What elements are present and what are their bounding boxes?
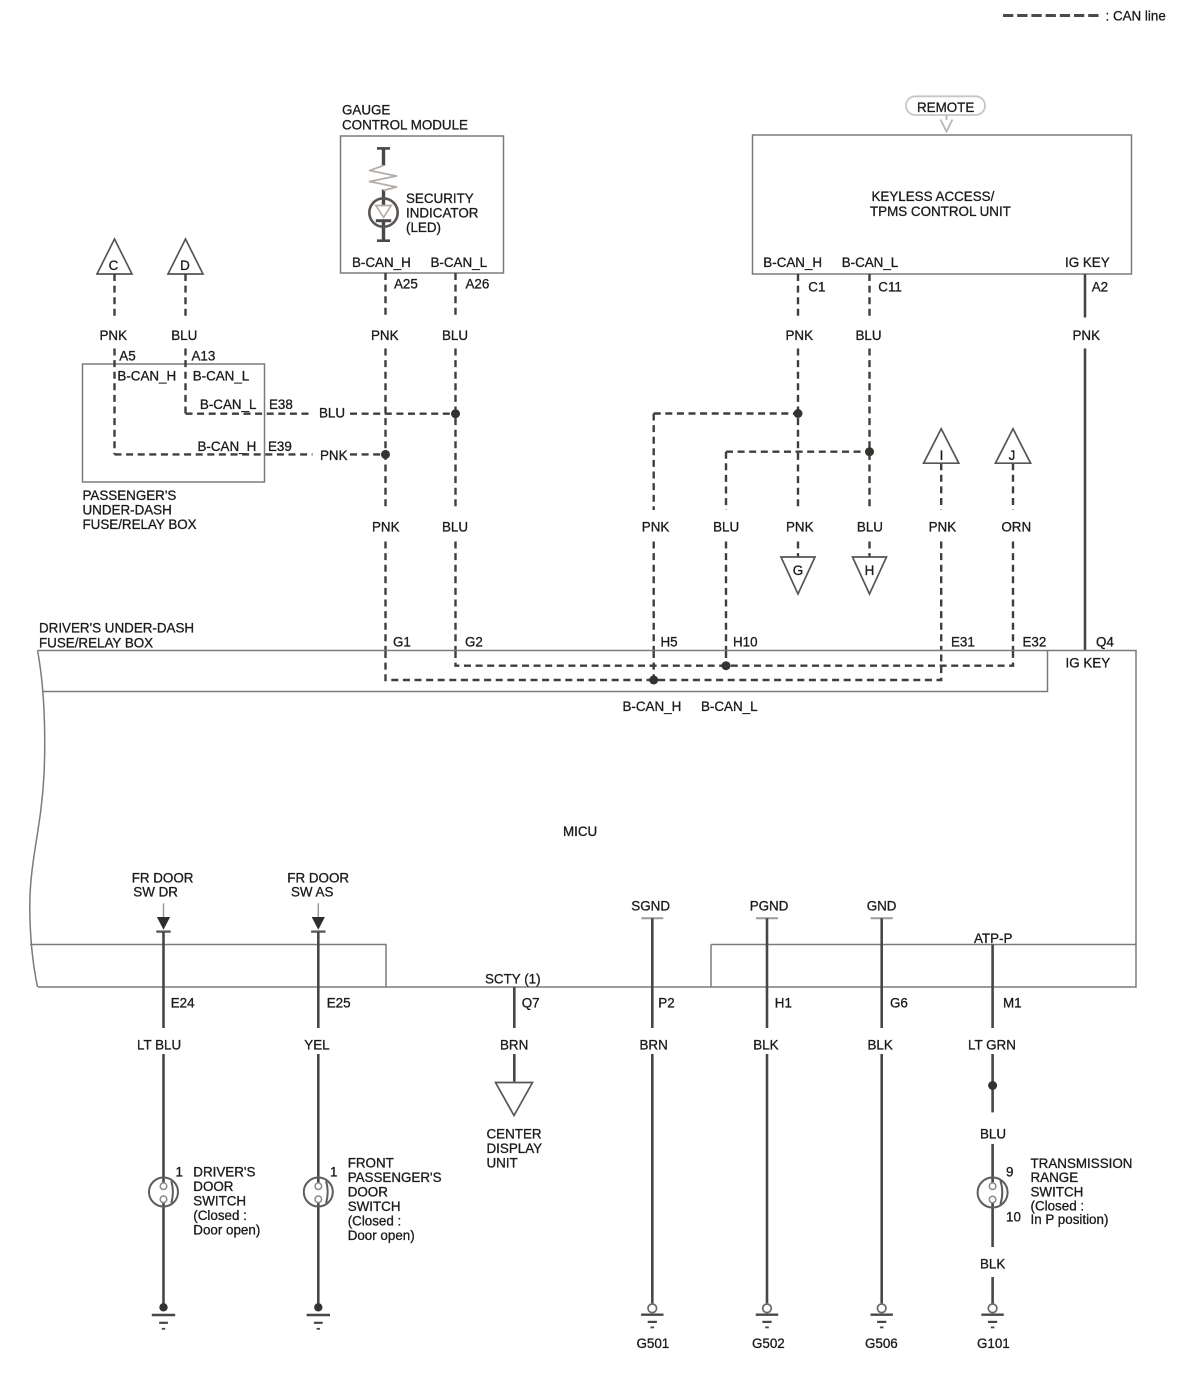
- svg-text:I: I: [940, 448, 944, 463]
- svg-text:H10: H10: [733, 635, 758, 650]
- svg-text:C: C: [109, 258, 119, 273]
- svg-text:FUSE/RELAY BOX: FUSE/RELAY BOX: [39, 636, 153, 651]
- svg-text:Door open): Door open): [348, 1228, 415, 1243]
- svg-text:Q7: Q7: [522, 996, 540, 1011]
- svg-text:REMOTE: REMOTE: [917, 100, 974, 115]
- svg-text:ATP-P: ATP-P: [974, 931, 1013, 946]
- svg-text:Q4: Q4: [1096, 635, 1114, 650]
- svg-text:CENTER: CENTER: [487, 1127, 542, 1142]
- svg-text:MICU: MICU: [563, 824, 597, 839]
- svg-text:H1: H1: [775, 996, 792, 1011]
- svg-text:BLU: BLU: [442, 328, 468, 343]
- svg-text:A13: A13: [192, 348, 216, 363]
- svg-text:G506: G506: [865, 1336, 898, 1351]
- svg-text:SECURITY: SECURITY: [406, 191, 474, 206]
- svg-text:B-CAN_H: B-CAN_H: [352, 255, 411, 270]
- svg-text:: CAN line: : CAN line: [1106, 9, 1166, 24]
- svg-text:A2: A2: [1092, 280, 1108, 295]
- svg-text:P2: P2: [658, 996, 674, 1011]
- svg-text:CONTROL MODULE: CONTROL MODULE: [342, 118, 468, 133]
- svg-text:PNK: PNK: [371, 328, 399, 343]
- svg-text:SGND: SGND: [631, 898, 670, 913]
- svg-text:PNK: PNK: [786, 328, 814, 343]
- svg-text:BRN: BRN: [640, 1038, 668, 1053]
- svg-text:10: 10: [1006, 1210, 1021, 1225]
- svg-text:TRANSMISSION: TRANSMISSION: [1031, 1156, 1133, 1171]
- svg-text:FR DOOR: FR DOOR: [287, 871, 349, 886]
- svg-text:B-CAN_H: B-CAN_H: [117, 369, 176, 384]
- svg-text:DRIVER'S: DRIVER'S: [193, 1165, 255, 1180]
- svg-text:1: 1: [176, 1165, 183, 1180]
- svg-text:PASSENGER'S: PASSENGER'S: [348, 1170, 442, 1185]
- svg-text:SW DR: SW DR: [133, 885, 178, 900]
- svg-text:A26: A26: [466, 277, 490, 292]
- svg-text:In P position): In P position): [1031, 1212, 1109, 1227]
- svg-text:B-CAN_L: B-CAN_L: [842, 255, 899, 270]
- svg-text:YEL: YEL: [304, 1038, 329, 1053]
- svg-text:B-CAN_L: B-CAN_L: [431, 255, 488, 270]
- svg-text:J: J: [1009, 448, 1016, 463]
- svg-text:A25: A25: [394, 277, 418, 292]
- svg-text:E24: E24: [171, 996, 195, 1011]
- svg-text:BLK: BLK: [980, 1257, 1005, 1272]
- svg-text:DOOR: DOOR: [193, 1179, 234, 1194]
- svg-text:FRONT: FRONT: [348, 1155, 394, 1170]
- svg-text:PNK: PNK: [100, 328, 128, 343]
- svg-text:B-CAN_H: B-CAN_H: [623, 699, 682, 714]
- svg-text:E31: E31: [951, 635, 975, 650]
- svg-text:E25: E25: [327, 996, 351, 1011]
- svg-text:RANGE: RANGE: [1031, 1170, 1079, 1185]
- svg-text:IG KEY: IG KEY: [1066, 656, 1111, 671]
- svg-text:PNK: PNK: [786, 520, 814, 535]
- svg-text:UNDER-DASH: UNDER-DASH: [83, 503, 172, 518]
- svg-text:PNK: PNK: [1073, 328, 1101, 343]
- svg-text:E38: E38: [269, 397, 293, 412]
- svg-text:B-CAN_L: B-CAN_L: [193, 369, 250, 384]
- svg-text:DISPLAY: DISPLAY: [487, 1141, 543, 1156]
- svg-text:M1: M1: [1003, 996, 1022, 1011]
- svg-text:BLU: BLU: [713, 520, 739, 535]
- svg-text:1: 1: [330, 1165, 337, 1180]
- svg-text:C1: C1: [808, 280, 825, 295]
- svg-text:9: 9: [1006, 1165, 1013, 1180]
- svg-text:G2: G2: [465, 635, 483, 650]
- svg-text:TPMS CONTROL UNIT: TPMS CONTROL UNIT: [870, 204, 1011, 219]
- svg-text:C11: C11: [878, 280, 902, 295]
- svg-text:(Closed :: (Closed :: [348, 1214, 402, 1229]
- svg-text:G1: G1: [393, 635, 411, 650]
- svg-text:PNK: PNK: [372, 520, 400, 535]
- svg-text:GND: GND: [867, 898, 897, 913]
- svg-text:G101: G101: [977, 1336, 1010, 1351]
- svg-text:BRN: BRN: [500, 1038, 528, 1053]
- svg-text:SCTY (1): SCTY (1): [485, 972, 541, 987]
- svg-text:(Closed :: (Closed :: [193, 1208, 247, 1223]
- svg-text:E32: E32: [1023, 635, 1047, 650]
- svg-text:GAUGE: GAUGE: [342, 103, 390, 118]
- svg-text:PASSENGER'S: PASSENGER'S: [83, 488, 177, 503]
- svg-text:BLU: BLU: [856, 328, 882, 343]
- svg-text:DOOR: DOOR: [348, 1185, 389, 1200]
- svg-text:BLK: BLK: [753, 1038, 778, 1053]
- svg-text:BLU: BLU: [319, 406, 345, 421]
- svg-text:G501: G501: [637, 1336, 670, 1351]
- svg-text:SWITCH: SWITCH: [193, 1194, 246, 1209]
- svg-text:B-CAN_H: B-CAN_H: [763, 255, 822, 270]
- svg-text:BLK: BLK: [868, 1038, 893, 1053]
- svg-text:INDICATOR: INDICATOR: [406, 206, 479, 221]
- svg-text:BLU: BLU: [857, 520, 883, 535]
- svg-text:SW AS: SW AS: [291, 885, 333, 900]
- svg-text:H: H: [865, 563, 875, 578]
- svg-text:SWITCH: SWITCH: [1031, 1184, 1084, 1199]
- svg-text:(LED): (LED): [406, 220, 441, 235]
- svg-text:LT GRN: LT GRN: [968, 1038, 1016, 1053]
- svg-text:B-CAN_L: B-CAN_L: [701, 699, 758, 714]
- svg-text:FUSE/RELAY BOX: FUSE/RELAY BOX: [83, 517, 197, 532]
- svg-text:LT BLU: LT BLU: [137, 1038, 181, 1053]
- svg-text:B-CAN_L: B-CAN_L: [200, 397, 257, 412]
- svg-text:PGND: PGND: [750, 898, 789, 913]
- svg-text:H5: H5: [661, 635, 678, 650]
- svg-text:E39: E39: [268, 439, 292, 454]
- svg-text:UNIT: UNIT: [487, 1156, 518, 1171]
- svg-text:BLU: BLU: [171, 328, 197, 343]
- svg-text:BLU: BLU: [980, 1127, 1006, 1142]
- svg-text:PNK: PNK: [320, 448, 348, 463]
- svg-text:PNK: PNK: [642, 520, 670, 535]
- svg-text:BLU: BLU: [442, 520, 468, 535]
- svg-text:G6: G6: [890, 996, 908, 1011]
- svg-text:ORN: ORN: [1001, 520, 1031, 535]
- svg-text:G: G: [793, 563, 803, 578]
- svg-text:DRIVER'S UNDER-DASH: DRIVER'S UNDER-DASH: [39, 621, 194, 636]
- svg-text:Door open): Door open): [193, 1223, 260, 1238]
- svg-text:D: D: [180, 258, 190, 273]
- svg-text:PNK: PNK: [929, 520, 957, 535]
- svg-text:SWITCH: SWITCH: [348, 1199, 401, 1214]
- svg-text:B-CAN_H: B-CAN_H: [198, 439, 257, 454]
- svg-text:G502: G502: [752, 1336, 785, 1351]
- svg-text:A5: A5: [119, 348, 135, 363]
- svg-text:FR DOOR: FR DOOR: [132, 871, 194, 886]
- svg-text:KEYLESS ACCESS/: KEYLESS ACCESS/: [872, 189, 995, 204]
- svg-text:IG KEY: IG KEY: [1065, 255, 1110, 270]
